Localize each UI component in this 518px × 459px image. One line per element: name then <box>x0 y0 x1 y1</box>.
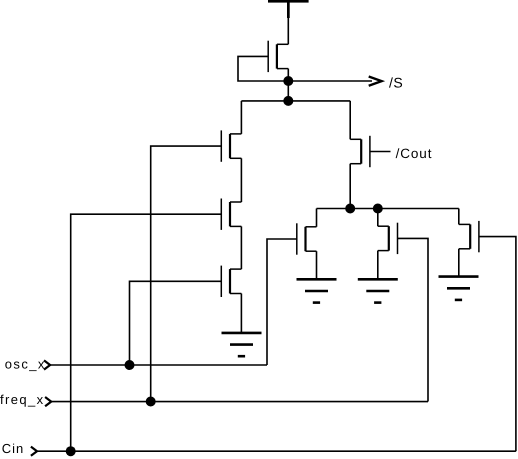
pin osc_x chevron <box>44 360 50 369</box>
transistor M4 (bottom left) <box>297 223 317 254</box>
wire M6 source to ground <box>458 249 460 277</box>
wire bus2 right to M6 drain <box>458 209 460 225</box>
wire Cin <box>37 450 516 452</box>
wire M5 gate to freq_x riser <box>398 238 429 401</box>
wire bus1 left to T1 drain <box>240 101 242 134</box>
wire M0 gate wrap to node /S <box>238 56 288 81</box>
transistor M5 (bottom middle, mirrored) <box>378 223 398 254</box>
wire T2 gate to Cin riser <box>71 214 222 451</box>
arrowhead /S output <box>369 77 382 86</box>
wire node /S to bus1 <box>287 81 289 101</box>
junction dot bus1 <box>283 96 293 106</box>
transistor T2 (left stack middle) <box>221 199 241 230</box>
junction dot B bus2 <box>373 204 383 214</box>
wire T1 gate to freq_x riser <box>151 146 222 401</box>
ground G4 <box>439 277 479 300</box>
svg-text:/S: /S <box>389 75 403 91</box>
junction dot osc_x <box>125 360 135 370</box>
ground G1 (left stack) <box>222 333 262 356</box>
svg-text:Cin: Cin <box>2 441 25 456</box>
wire M6 gate to Cin riser <box>479 237 516 452</box>
wire T3 gate to osc_x riser <box>130 281 222 365</box>
wire bus2 horizontal <box>317 208 459 210</box>
wire bus1 horizontal <box>241 100 350 102</box>
junction dot A bus2 <box>345 204 355 214</box>
wire M4 source to ground <box>316 251 318 279</box>
wire M5 source to ground <box>377 251 379 280</box>
wire /S arrow shaft <box>288 80 372 82</box>
wire bus2 left to M4 drain <box>316 209 318 227</box>
transistor M1 /Cout (mirrored) <box>350 136 370 167</box>
transistor M6 (bottom right, mirrored) <box>459 221 479 252</box>
junction dot Cin <box>66 446 76 456</box>
junction dot freq_x <box>146 397 156 407</box>
transistor M0 (diode-connected, top) <box>268 41 288 72</box>
wire M1 source to bus2 <box>349 164 351 209</box>
power VDD bar <box>268 0 309 18</box>
svg-text:/Cout: /Cout <box>396 146 433 161</box>
wire osc_x <box>50 364 267 366</box>
wire T3 source to ground <box>240 294 242 333</box>
pin Cin chevron <box>31 447 37 456</box>
transistor T1 (left stack top) <box>221 130 241 161</box>
wire M1 gate lead <box>370 151 391 153</box>
wire M4 gate to osc_x <box>267 239 297 365</box>
wire M0 source to node /S <box>287 69 289 81</box>
ground G2 <box>297 279 337 302</box>
svg-text:osc_x: osc_x <box>5 356 46 371</box>
wire dot B to M5 drain <box>377 209 379 227</box>
pin freq_x chevron <box>45 397 51 406</box>
svg-text:freq_x: freq_x <box>0 392 45 407</box>
wire freq_x <box>51 401 428 403</box>
wire T2 source to T3 drain <box>240 226 242 269</box>
wire bus1 right to M1 drain <box>349 101 351 139</box>
wire T1 source to T2 drain <box>240 158 242 202</box>
node /S junction dot <box>283 76 293 86</box>
wire VDD stem to M0 drain <box>287 17 289 44</box>
ground G3 <box>358 279 398 302</box>
transistor T3 (left stack bottom) <box>221 266 241 297</box>
